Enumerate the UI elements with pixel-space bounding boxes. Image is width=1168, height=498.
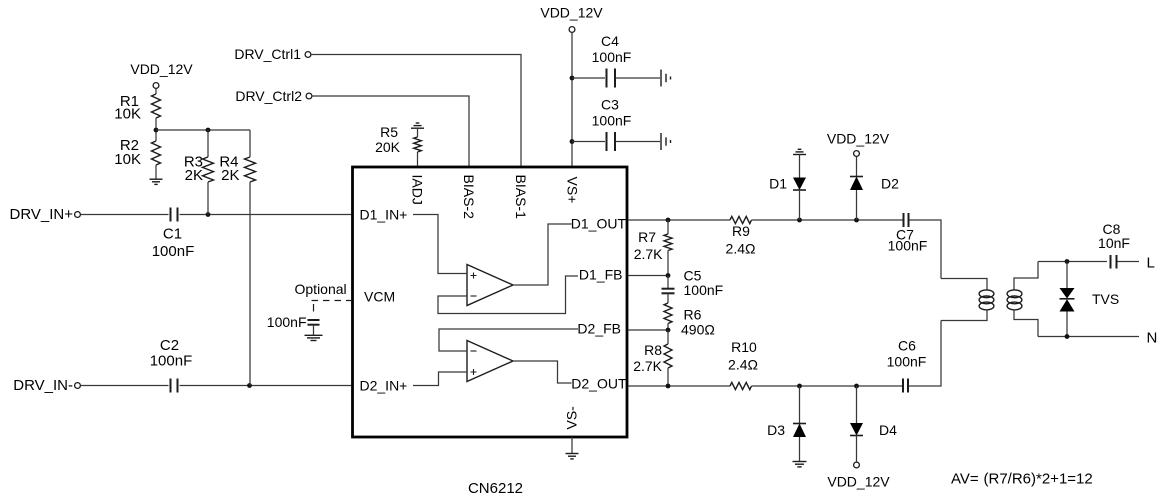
junction — [797, 384, 802, 389]
svg-text:AV=: AV= — [951, 471, 979, 488]
svg-text:VDD_12V: VDD_12V — [540, 5, 603, 21]
junction — [666, 328, 671, 333]
resistor R5 — [375, 124, 421, 167]
svg-text:100nF: 100nF — [888, 238, 928, 254]
svg-text:DRV_Ctrl2: DRV_Ctrl2 — [235, 88, 302, 104]
svg-text:(R7/R6)*2+1=12: (R7/R6)*2+1=12 — [984, 471, 1093, 488]
wire bias rail — [156, 129, 250, 131]
svg-text:2.7K: 2.7K — [633, 358, 662, 374]
wire N net — [1038, 336, 1139, 338]
svg-text:10nF: 10nF — [1098, 235, 1130, 251]
ground — [793, 462, 807, 467]
capacitor C6 — [887, 338, 927, 393]
wire — [180, 214, 353, 216]
resistor R4 — [219, 130, 255, 386]
capacitor C8 — [1098, 221, 1139, 269]
svg-text:C6: C6 — [898, 338, 916, 354]
svg-text:Optional: Optional — [295, 281, 347, 297]
svg-text:DRV_Ctrl1: DRV_Ctrl1 — [234, 46, 301, 62]
svg-text:R7: R7 — [638, 229, 656, 245]
svg-text:D1_IN+: D1_IN+ — [360, 207, 408, 223]
junction — [206, 212, 211, 217]
wire — [155, 89, 157, 95]
wire — [155, 118, 157, 141]
capacitor C2 — [150, 337, 193, 393]
ground — [566, 454, 579, 459]
svg-text:R5: R5 — [380, 124, 398, 140]
resistor R9 — [726, 216, 756, 256]
svg-text:VDD_12V: VDD_12V — [827, 131, 890, 147]
svg-text:VDD_12V: VDD_12V — [130, 61, 193, 77]
capacitor C5 — [662, 268, 724, 304]
terminal DRV_Ctrl1 — [305, 52, 311, 58]
svg-text:D1_FB: D1_FB — [579, 267, 623, 283]
capacitor C1 — [152, 208, 195, 261]
svg-text:VCM: VCM — [364, 289, 395, 305]
svg-text:R9: R9 — [732, 223, 750, 239]
transformer T1 secondary — [1007, 262, 1038, 337]
wire — [752, 219, 903, 221]
diode D2 — [850, 157, 899, 221]
svg-text:10K: 10K — [114, 106, 141, 123]
svg-text:490Ω: 490Ω — [681, 322, 715, 338]
wire — [438, 276, 578, 314]
junction — [666, 273, 671, 278]
svg-text:100nF: 100nF — [267, 314, 307, 330]
svg-text:C4: C4 — [601, 33, 619, 49]
svg-text:100nF: 100nF — [887, 354, 927, 370]
resistor R3 — [184, 130, 214, 215]
capacitor C4 — [572, 33, 660, 88]
ground — [661, 133, 671, 150]
svg-text:D2_IN+: D2_IN+ — [360, 378, 408, 394]
svg-text:D2_OUT: D2_OUT — [571, 376, 627, 392]
svg-text:VS-: VS- — [564, 406, 580, 430]
wire — [180, 385, 353, 387]
svg-text:D4: D4 — [879, 422, 897, 438]
wire — [413, 372, 467, 386]
svg-text:R10: R10 — [731, 339, 757, 355]
svg-text:L: L — [1147, 255, 1155, 272]
svg-text:IADJ: IADJ — [410, 175, 426, 205]
ground — [150, 179, 163, 184]
svg-text:TVS: TVS — [1092, 291, 1119, 307]
junction — [854, 218, 859, 223]
svg-text:R8: R8 — [644, 342, 662, 358]
junction — [570, 76, 575, 81]
junction — [666, 384, 671, 389]
junction — [666, 218, 671, 223]
wire D1_OUT net — [629, 219, 731, 221]
power VDD_12V — [540, 5, 603, 33]
wire — [752, 385, 903, 387]
wire — [155, 165, 157, 179]
wire — [571, 33, 573, 168]
label gain formula — [951, 471, 1093, 488]
svg-text:2K: 2K — [221, 167, 239, 184]
diode D1 — [769, 155, 806, 221]
svg-text:100nF: 100nF — [592, 49, 632, 65]
terminal DRV_Ctrl2 — [306, 93, 312, 99]
svg-text:D1: D1 — [769, 176, 787, 192]
junction — [247, 383, 252, 388]
junction — [1065, 259, 1070, 264]
wire — [413, 215, 467, 274]
wire D2_FB net — [629, 329, 669, 331]
svg-text:DRV_IN+: DRV_IN+ — [9, 206, 73, 223]
ground — [793, 149, 806, 154]
junction — [1065, 334, 1070, 339]
wire — [513, 224, 572, 285]
svg-text:100nF: 100nF — [152, 243, 195, 260]
svg-text:BIAS-2: BIAS-2 — [461, 175, 477, 220]
svg-text:CN6212: CN6212 — [468, 480, 523, 497]
ground — [411, 123, 424, 128]
wire — [81, 214, 169, 216]
junction — [570, 139, 575, 144]
svg-text:BIAS-1: BIAS-1 — [513, 175, 529, 220]
wire — [439, 329, 578, 351]
svg-text:D2_FB: D2_FB — [577, 321, 621, 337]
svg-text:R6: R6 — [684, 307, 702, 323]
svg-text:N: N — [1147, 330, 1158, 347]
resistor R2 — [114, 137, 160, 168]
capacitor 100nF optional — [267, 314, 320, 335]
op-amp U1A — [467, 265, 513, 306]
wire — [910, 220, 942, 279]
wire — [81, 385, 169, 387]
svg-text:C2: C2 — [160, 337, 179, 354]
ground — [661, 70, 671, 87]
svg-text:2.4Ω: 2.4Ω — [728, 357, 758, 373]
junction — [154, 128, 159, 133]
svg-text:C1: C1 — [163, 226, 182, 243]
resistor R6 — [664, 303, 715, 338]
svg-text:D2: D2 — [881, 176, 899, 192]
wire VS- stub — [571, 437, 573, 454]
resistor R10 — [728, 339, 758, 390]
terminal DRV_IN+ — [75, 212, 81, 218]
svg-text:100nF: 100nF — [592, 113, 632, 129]
svg-text:C3: C3 — [601, 97, 619, 113]
svg-text:D3: D3 — [767, 422, 785, 438]
junction — [206, 128, 211, 133]
wire D2_OUT net — [629, 385, 731, 387]
wire — [312, 96, 469, 167]
svg-text:100nF: 100nF — [150, 353, 193, 370]
wire L net — [1038, 261, 1107, 263]
diode D3 — [767, 386, 806, 462]
terminal DRV_IN- — [75, 383, 81, 389]
resistor R8 — [633, 330, 672, 386]
svg-text:2.7K: 2.7K — [634, 246, 663, 262]
ground — [305, 335, 323, 340]
power VDD_12V — [130, 61, 193, 88]
wire — [311, 55, 521, 168]
svg-text:10K: 10K — [114, 151, 141, 168]
svg-text:2.4Ω: 2.4Ω — [726, 241, 756, 257]
wire VCM dashed — [312, 301, 353, 312]
capacitor C3 — [572, 97, 660, 152]
svg-text:100nF: 100nF — [684, 282, 724, 298]
op-amp U1B — [467, 341, 513, 382]
wire — [909, 321, 941, 387]
TVS — [1060, 262, 1120, 337]
svg-text:20K: 20K — [375, 139, 401, 155]
resistor R1 — [114, 93, 160, 123]
diode D4 — [850, 386, 897, 462]
junction — [854, 384, 859, 389]
wire — [513, 361, 572, 383]
svg-text:DRV_IN-: DRV_IN- — [13, 377, 73, 394]
op-amp U1 IC CN6212 box — [353, 167, 628, 437]
svg-text:D1_OUT: D1_OUT — [571, 216, 627, 232]
junction — [797, 218, 802, 223]
capacitor C7 — [888, 213, 928, 254]
power VDD_12V — [827, 131, 890, 157]
resistor R7 — [634, 220, 672, 276]
svg-text:2K: 2K — [185, 167, 203, 184]
svg-text:VDD_12V: VDD_12V — [827, 474, 890, 490]
power VDD_12V — [827, 462, 890, 489]
svg-text:VS+: VS+ — [565, 177, 581, 204]
wire D1_FB net — [629, 275, 669, 277]
transformer T1 primary — [941, 279, 994, 321]
